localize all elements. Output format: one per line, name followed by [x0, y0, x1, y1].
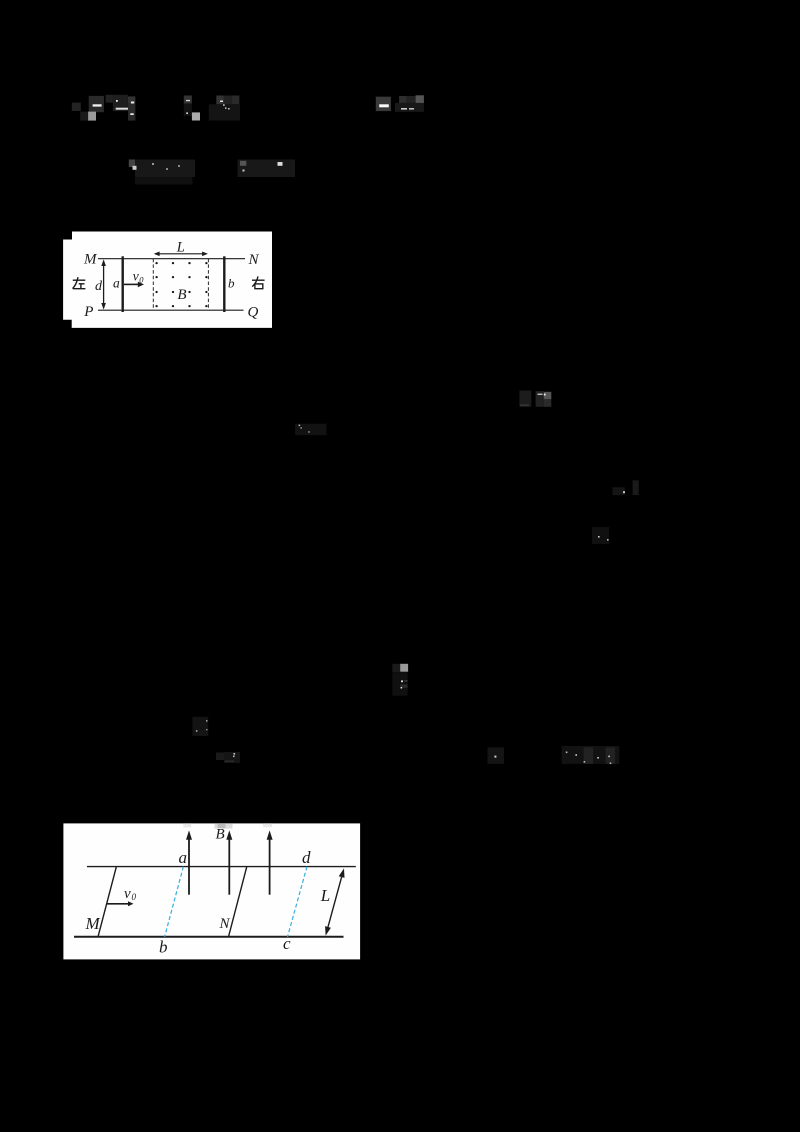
svg-text:d: d: [302, 848, 311, 867]
svg-text:Q: Q: [248, 305, 259, 321]
svg-text:d: d: [95, 279, 103, 294]
svg-text:N: N: [219, 916, 231, 932]
svg-text:v: v: [124, 886, 131, 902]
svg-text:B: B: [177, 287, 186, 303]
svg-text:M: M: [83, 252, 98, 268]
svg-text:0: 0: [139, 274, 144, 284]
svg-text:c: c: [283, 934, 291, 953]
svg-text:P: P: [83, 304, 93, 320]
svg-text:B: B: [216, 826, 225, 842]
svg-text:a: a: [113, 276, 120, 291]
svg-text:a: a: [179, 848, 188, 867]
svg-text:b: b: [159, 938, 168, 957]
svg-text:0: 0: [132, 892, 137, 902]
svg-text:L: L: [176, 240, 185, 256]
svg-text:v: v: [133, 268, 139, 283]
svg-text:N: N: [248, 252, 260, 268]
svg-text:b: b: [228, 276, 235, 291]
svg-text:L: L: [320, 886, 330, 905]
svg-text:M: M: [85, 914, 101, 933]
